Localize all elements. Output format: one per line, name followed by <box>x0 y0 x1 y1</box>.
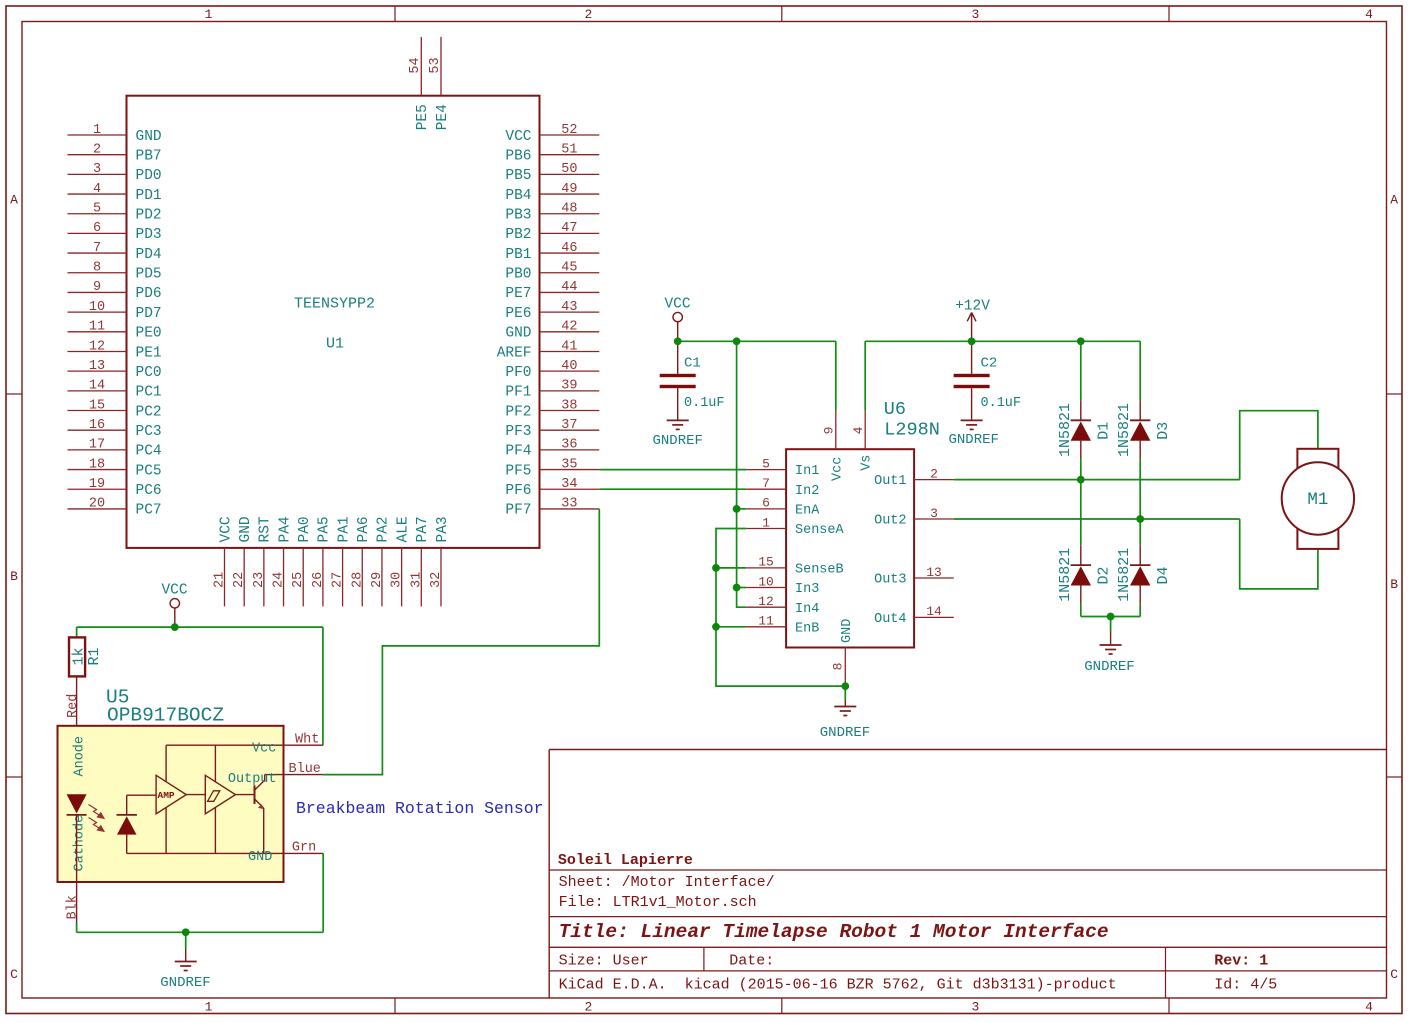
svg-text:9: 9 <box>822 427 837 435</box>
svg-text:15: 15 <box>758 555 774 570</box>
svg-text:GND: GND <box>505 326 531 342</box>
svg-text:0.1uF: 0.1uF <box>981 396 1022 411</box>
U1 pin 44 line <box>540 291 600 293</box>
svg-text:35: 35 <box>561 457 577 472</box>
svg-text:File: LTR1v1_Motor.sch: File: LTR1v1_Motor.sch <box>559 894 757 911</box>
svg-text:46: 46 <box>561 241 577 256</box>
U6 pin 1 line <box>746 528 786 530</box>
U1 pin 48 line <box>540 213 600 215</box>
svg-text:Cathode: Cathode <box>73 815 88 872</box>
sensor internal rails <box>166 744 283 746</box>
U1 pin 51 line <box>540 154 600 156</box>
svg-text:1: 1 <box>93 123 101 138</box>
svg-text:Out4: Out4 <box>874 612 906 627</box>
svg-text:24: 24 <box>272 572 287 588</box>
svg-text:GNDREF: GNDREF <box>652 433 702 449</box>
svg-text:In4: In4 <box>795 602 819 617</box>
svg-text:14: 14 <box>926 604 942 619</box>
svg-text:Id: 4/5: Id: 4/5 <box>1214 976 1277 993</box>
junction In3 <box>733 584 741 592</box>
U1 pin 36 line <box>540 449 600 451</box>
svg-text:Soleil Lapierre: Soleil Lapierre <box>558 852 693 869</box>
svg-text:B: B <box>10 569 18 584</box>
junction sensor VCC <box>171 623 179 631</box>
svg-text:26: 26 <box>311 572 326 588</box>
svg-text:1N5821: 1N5821 <box>1116 548 1133 602</box>
svg-text:PB1: PB1 <box>505 247 531 263</box>
wire Out2 to motor <box>954 518 1240 520</box>
U1 pin 15 line <box>68 410 127 412</box>
svg-text:In1: In1 <box>795 464 819 479</box>
U1 pin 1 line <box>68 134 127 136</box>
wire VCC to EnA/In3/In4 <box>737 341 747 607</box>
U1 pin 9 line <box>68 291 127 293</box>
photodiode inside sensor <box>117 814 137 816</box>
svg-text:PD5: PD5 <box>136 267 162 283</box>
svg-text:OPB917BOCZ: OPB917BOCZ <box>107 705 224 727</box>
power symbol +12V <box>971 313 973 341</box>
svg-text:43: 43 <box>561 300 577 315</box>
sensor bottom ground bus <box>76 923 78 932</box>
svg-text:0.1uF: 0.1uF <box>684 396 725 411</box>
wire sensor VCC rail <box>77 626 323 628</box>
U6 pin 5 line <box>746 469 786 471</box>
U1 pin 27 line <box>342 548 344 607</box>
svg-text:1: 1 <box>762 515 770 530</box>
svg-text:PB4: PB4 <box>505 188 531 204</box>
svg-text:In3: In3 <box>795 582 819 597</box>
svg-text:PD3: PD3 <box>136 227 162 243</box>
U6 pin 14 line <box>914 616 954 618</box>
svg-text:27: 27 <box>331 572 346 588</box>
svg-text:PE6: PE6 <box>505 306 531 322</box>
svg-text:41: 41 <box>561 339 577 354</box>
U1 pin 45 line <box>540 272 600 274</box>
svg-text:3: 3 <box>930 506 938 521</box>
svg-text:PA0: PA0 <box>297 516 313 542</box>
U1 pin 47 line <box>540 232 600 234</box>
wire stub EnA <box>737 508 747 510</box>
U1 pin 33 line <box>540 508 600 510</box>
svg-text:44: 44 <box>561 280 577 295</box>
U1 pin 17 line <box>68 449 127 451</box>
svg-text:PB7: PB7 <box>136 148 162 164</box>
U1 pin 14 line <box>68 390 127 392</box>
svg-text:PA6: PA6 <box>356 516 372 542</box>
U1 pin 19 line <box>68 488 127 490</box>
schmitt power drop <box>214 745 216 782</box>
wire Out2 to D4 cathode <box>1139 519 1141 546</box>
U1 pin 28 line <box>361 548 363 607</box>
U1 pin 2 line <box>68 154 127 156</box>
U6 pin 10 line <box>746 587 786 589</box>
svg-text:23: 23 <box>252 572 267 588</box>
svg-text:51: 51 <box>561 142 577 157</box>
U1 pin 41 line <box>540 350 600 352</box>
svg-text:2: 2 <box>93 142 101 157</box>
svg-text:4: 4 <box>1365 7 1373 22</box>
wire VCC to Wht pin <box>322 627 324 745</box>
svg-text:B: B <box>1390 577 1398 592</box>
svg-text:AREF: AREF <box>497 345 532 361</box>
LED light arrows <box>89 805 104 832</box>
svg-text:GNDREF: GNDREF <box>820 725 870 741</box>
svg-text:Red: Red <box>66 694 81 718</box>
svg-text:ALE: ALE <box>395 516 411 542</box>
svg-text:Date:: Date: <box>729 952 774 969</box>
svg-text:PE5: PE5 <box>415 104 431 130</box>
svg-text:Breakbeam Rotation Sensor: Breakbeam Rotation Sensor <box>296 799 544 818</box>
ground GNDREF sensor <box>185 932 187 948</box>
svg-text:47: 47 <box>561 221 577 236</box>
wire PF6 to In2 <box>599 488 746 490</box>
U1 pin 34 line <box>540 488 600 490</box>
svg-text:8: 8 <box>93 261 101 276</box>
svg-text:2: 2 <box>584 999 592 1014</box>
svg-text:GND: GND <box>840 619 855 643</box>
svg-text:7: 7 <box>93 241 101 256</box>
svg-text:21: 21 <box>213 572 228 588</box>
wire Out1 to D2 cathode <box>1080 480 1082 546</box>
U1 pin 7 line <box>68 252 127 254</box>
svg-text:15: 15 <box>89 398 105 413</box>
svg-text:32: 32 <box>429 572 444 588</box>
driver U6 body <box>786 449 914 647</box>
U1 pin 54 line <box>420 37 422 96</box>
svg-text:EnA: EnA <box>795 504 820 519</box>
U6 pin 9 line <box>835 410 837 449</box>
power symbol VCC (sensor) <box>170 599 179 608</box>
svg-text:29: 29 <box>370 572 385 588</box>
svg-text:PC7: PC7 <box>136 503 162 519</box>
ground GNDREF under diodes <box>1110 617 1112 632</box>
wire down to D1 <box>1080 341 1082 401</box>
wire stub SenseB <box>716 567 746 569</box>
svg-text:3: 3 <box>93 162 101 177</box>
svg-text:GNDREF: GNDREF <box>948 432 998 448</box>
svg-text:PD6: PD6 <box>136 286 162 302</box>
svg-text:Vcc: Vcc <box>830 457 845 481</box>
svg-text:3: 3 <box>971 999 979 1014</box>
wire PF5 to In1 <box>599 469 746 471</box>
svg-text:PB6: PB6 <box>505 148 531 164</box>
svg-text:53: 53 <box>428 57 443 73</box>
capacitor C2 <box>971 341 973 374</box>
svg-text:U1: U1 <box>326 336 344 353</box>
svg-text:Out1: Out1 <box>874 474 906 489</box>
svg-text:M1: M1 <box>1307 490 1328 510</box>
U6 pin 12 line <box>746 606 786 608</box>
schmitt ground drop <box>214 807 216 853</box>
svg-text:R1: R1 <box>86 647 103 665</box>
svg-text:3: 3 <box>971 7 979 22</box>
U1 pin 50 line <box>540 173 600 175</box>
U6 pin 4 line <box>864 410 866 449</box>
svg-text:Title: Linear Timelapse Robot: Title: Linear Timelapse Robot 1 Motor In… <box>559 921 1109 943</box>
svg-text:GNDREF: GNDREF <box>1084 659 1134 675</box>
svg-text:PC0: PC0 <box>136 365 162 381</box>
U1 pin 52 line <box>540 134 600 136</box>
U1 pin 13 line <box>68 370 127 372</box>
wire Grn to ground bus <box>322 853 324 932</box>
svg-text:13: 13 <box>89 359 105 374</box>
U1 pin 39 line <box>540 390 600 392</box>
U1 pin 10 line <box>68 311 127 313</box>
wire D4 anode down <box>1139 604 1141 616</box>
svg-text:22: 22 <box>232 572 247 588</box>
U6 pin 8 line <box>844 648 846 687</box>
U1 pin 42 line <box>540 331 600 333</box>
svg-text:D4: D4 <box>1155 566 1172 584</box>
junction EnB <box>712 623 720 631</box>
svg-text:9: 9 <box>93 280 101 295</box>
junction EnA <box>733 505 741 513</box>
svg-text:25: 25 <box>291 572 306 588</box>
junction diode gnd <box>1107 613 1115 621</box>
wire D2 anode down <box>1080 604 1082 616</box>
wire stub EnB <box>716 626 746 628</box>
svg-text:GND: GND <box>238 516 254 542</box>
svg-text:L298N: L298N <box>884 420 940 441</box>
svg-text:1k: 1k <box>71 647 88 665</box>
svg-text:4: 4 <box>93 182 101 197</box>
svg-text:PB0: PB0 <box>505 267 531 283</box>
svg-text:PF4: PF4 <box>505 444 531 460</box>
svg-text:37: 37 <box>561 418 577 433</box>
svg-text:PF0: PF0 <box>505 365 531 381</box>
svg-text:2: 2 <box>584 7 592 22</box>
junction U6 pin8 GND <box>841 682 849 690</box>
svg-text:36: 36 <box>561 438 577 453</box>
svg-text:16: 16 <box>89 418 105 433</box>
wire SenseA/SenseB/EnB to GND <box>716 529 845 687</box>
U1 pin 40 line <box>540 370 600 372</box>
svg-text:GNDREF: GNDREF <box>160 975 210 991</box>
junction +12V-D1 <box>1077 337 1085 345</box>
U1 pin 23 line <box>263 548 265 607</box>
svg-text:PC6: PC6 <box>136 483 162 499</box>
svg-text:PD0: PD0 <box>136 168 162 184</box>
U6 pin 6 line <box>746 508 786 510</box>
svg-text:13: 13 <box>926 565 942 580</box>
LED inside sensor <box>67 794 87 813</box>
mcu U1 body <box>127 96 540 548</box>
svg-text:PA5: PA5 <box>317 516 333 542</box>
svg-text:10: 10 <box>89 300 105 315</box>
svg-text:PF7: PF7 <box>505 503 531 519</box>
junction VCC-C1 <box>674 337 682 345</box>
svg-text:42: 42 <box>561 320 577 335</box>
schmitt to transistor base <box>236 794 255 796</box>
wire to R1 <box>76 627 78 637</box>
svg-text:54: 54 <box>408 57 423 73</box>
wire down to D3 <box>1139 341 1141 401</box>
svg-text:Vs: Vs <box>860 455 875 471</box>
svg-text:1: 1 <box>205 999 213 1014</box>
svg-text:7: 7 <box>762 476 770 491</box>
amp ground drop <box>165 808 167 854</box>
svg-text:PD4: PD4 <box>136 247 162 263</box>
svg-text:EnB: EnB <box>795 621 819 636</box>
svg-text:KiCad E.D.A. kicad (2015-06-1: KiCad E.D.A. kicad (2015-06-16 BZR 5762,… <box>559 976 1117 993</box>
svg-text:PF3: PF3 <box>505 424 531 440</box>
svg-text:11: 11 <box>758 614 774 629</box>
svg-text:C: C <box>1390 967 1398 982</box>
transistor inside sensor <box>254 785 256 804</box>
svg-text:5: 5 <box>93 202 101 217</box>
svg-text:4: 4 <box>1365 999 1373 1014</box>
svg-text:19: 19 <box>89 477 105 492</box>
svg-text:8: 8 <box>831 663 846 671</box>
svg-text:Blk: Blk <box>65 895 80 919</box>
svg-text:PB5: PB5 <box>505 168 531 184</box>
svg-text:12: 12 <box>758 594 774 609</box>
junction Out1-D1 <box>1077 476 1085 484</box>
svg-text:PE4: PE4 <box>435 104 451 130</box>
svg-text:1N5821: 1N5821 <box>1057 403 1074 457</box>
svg-text:38: 38 <box>561 398 577 413</box>
svg-text:31: 31 <box>409 572 424 588</box>
U1 pin 38 line <box>540 410 600 412</box>
svg-text:PF6: PF6 <box>505 483 531 499</box>
wire D3 anode to Out2 <box>1139 460 1141 519</box>
svg-text:PA7: PA7 <box>415 516 431 542</box>
U1 pin 35 line <box>540 469 600 471</box>
svg-text:VCC: VCC <box>218 516 234 542</box>
wire Out1 to motor <box>954 479 1240 481</box>
svg-text:PE0: PE0 <box>136 326 162 342</box>
ground GNDREF under C2 <box>961 419 983 421</box>
svg-text:45: 45 <box>561 261 577 276</box>
svg-text:28: 28 <box>350 572 365 588</box>
motor M1 <box>1297 449 1338 549</box>
svg-text:Blue: Blue <box>289 762 321 777</box>
svg-text:1N5821: 1N5821 <box>1116 403 1133 457</box>
U1 pin 6 line <box>68 232 127 234</box>
U1 pin 30 line <box>401 548 403 607</box>
wire down to U6 pin4 <box>864 341 866 410</box>
svg-text:PD2: PD2 <box>136 208 162 224</box>
svg-text:VCC: VCC <box>664 297 690 313</box>
U1 pin 12 line <box>68 350 127 352</box>
svg-text:50: 50 <box>561 162 577 177</box>
U6 pin 3 line <box>914 518 954 520</box>
svg-text:PC4: PC4 <box>136 444 162 460</box>
diode D2 <box>1080 546 1082 565</box>
diode D3 <box>1139 401 1141 420</box>
svg-text:1: 1 <box>205 7 213 22</box>
svg-text:SenseA: SenseA <box>795 523 845 538</box>
U6 pin 2 line <box>914 479 954 481</box>
U1 pin 5 line <box>68 213 127 215</box>
U1 pin 26 line <box>322 548 324 607</box>
svg-text:D3: D3 <box>1155 422 1172 440</box>
svg-text:PA2: PA2 <box>376 516 392 542</box>
svg-text:RST: RST <box>258 516 274 542</box>
svg-text:34: 34 <box>561 477 577 492</box>
U1 pin 21 line <box>224 548 226 607</box>
wire +12V rail <box>865 340 1140 342</box>
svg-text:Out3: Out3 <box>874 573 906 588</box>
svg-text:C2: C2 <box>981 356 998 372</box>
wire down to U6 pin9 <box>835 341 837 410</box>
U6 pin 13 line <box>914 577 954 579</box>
svg-text:PD7: PD7 <box>136 306 162 322</box>
U5 Grn pin line <box>284 852 324 854</box>
svg-text:PA1: PA1 <box>336 516 352 542</box>
svg-text:U6: U6 <box>884 399 906 420</box>
U1 pin 24 line <box>283 548 285 607</box>
U1 pin 53 line <box>440 37 442 96</box>
wire D1 anode to Out1 <box>1080 460 1082 480</box>
svg-text:PC2: PC2 <box>136 404 162 420</box>
title block <box>548 750 550 999</box>
svg-text:2: 2 <box>930 466 938 481</box>
U1 pin 4 line <box>68 193 127 195</box>
svg-text:Grn: Grn <box>292 841 316 856</box>
U1 pin 32 line <box>440 548 442 607</box>
U1 pin 3 line <box>68 173 127 175</box>
svg-text:14: 14 <box>89 379 105 394</box>
svg-text:+12V: +12V <box>955 299 990 315</box>
U1 pin 37 line <box>540 429 600 431</box>
junction VCC-EnA line <box>733 337 741 345</box>
svg-text:40: 40 <box>561 359 577 374</box>
svg-text:5: 5 <box>762 456 770 471</box>
svg-text:12: 12 <box>89 339 105 354</box>
svg-text:C: C <box>10 967 18 982</box>
svg-text:PA3: PA3 <box>435 516 451 542</box>
svg-text:Vcc: Vcc <box>252 742 276 757</box>
svg-text:PF5: PF5 <box>505 463 531 479</box>
U1 pin 22 line <box>243 548 245 607</box>
junction sensor gnd <box>182 928 190 936</box>
power symbol VCC (C1) <box>673 312 682 321</box>
amp power drop <box>165 745 167 781</box>
U5 Blue pin line <box>284 774 324 776</box>
svg-text:10: 10 <box>758 574 774 589</box>
svg-text:D1: D1 <box>1096 422 1113 440</box>
U1 pin 11 line <box>68 331 127 333</box>
U1 pin 16 line <box>68 429 127 431</box>
svg-text:PC5: PC5 <box>136 463 162 479</box>
svg-text:PC3: PC3 <box>136 424 162 440</box>
svg-text:20: 20 <box>89 497 105 512</box>
svg-text:PC1: PC1 <box>136 385 162 401</box>
svg-text:49: 49 <box>561 182 577 197</box>
svg-text:PE1: PE1 <box>136 345 162 361</box>
ground GNDREF under C1 <box>667 419 689 421</box>
svg-text:Rev: 1: Rev: 1 <box>1214 952 1268 969</box>
U1 pin 46 line <box>540 252 600 254</box>
wire VCC rail to U6 Vcc <box>678 340 836 342</box>
junction SenseB <box>712 564 720 572</box>
svg-text:TEENSYPP2: TEENSYPP2 <box>294 296 375 313</box>
U1 pin 25 line <box>302 548 304 607</box>
svg-text:11: 11 <box>89 320 105 335</box>
U1 pin 49 line <box>540 193 600 195</box>
svg-text:4: 4 <box>851 426 866 434</box>
svg-text:33: 33 <box>561 497 577 512</box>
amp to schmitt <box>186 794 205 796</box>
svg-text:PF1: PF1 <box>505 385 531 401</box>
svg-text:PB2: PB2 <box>505 227 531 243</box>
junction Out2-D3 <box>1136 515 1144 523</box>
svg-text:18: 18 <box>89 457 105 472</box>
U1 pin 18 line <box>68 469 127 471</box>
svg-text:39: 39 <box>561 379 577 394</box>
svg-text:PA4: PA4 <box>277 516 293 542</box>
